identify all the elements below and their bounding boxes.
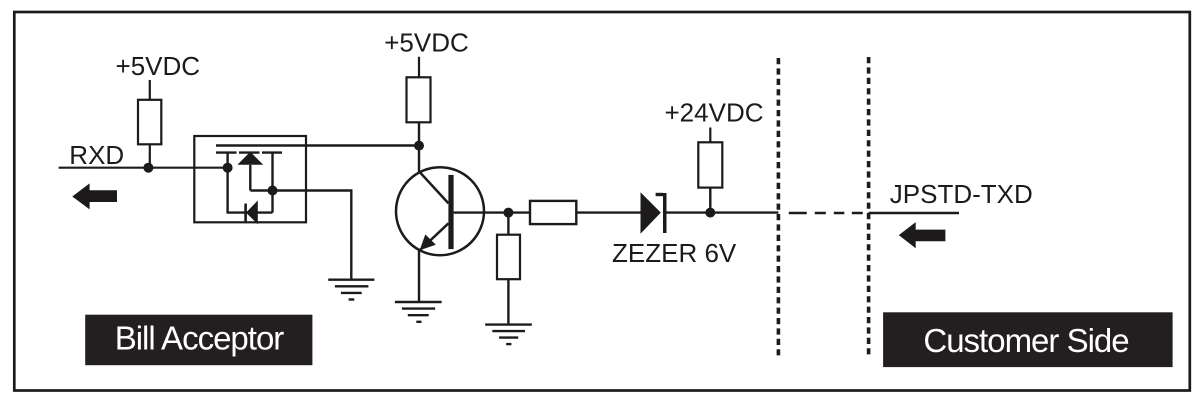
- wire U1 top rail to collector node: [216, 144, 419, 146]
- wire to R3: [507, 213, 509, 235]
- wire base line: [454, 211, 530, 213]
- arrow JPSTD-TXD direction: [899, 222, 946, 248]
- svg-text:ZEZER 6V: ZEZER 6V: [612, 238, 737, 268]
- svg-text:RXD: RXD: [69, 140, 124, 170]
- svg-text:+5VDC: +5VDC: [116, 51, 201, 81]
- svg-text:Customer Side: Customer Side: [923, 322, 1128, 359]
- svg-text:+24VDC: +24VDC: [665, 98, 764, 128]
- wire dashed interconnect: [789, 212, 868, 214]
- diode D1 up arrow: [237, 152, 263, 165]
- svg-text:+5VDC: +5VDC: [384, 27, 469, 57]
- ground G1: [395, 302, 442, 322]
- wire R3 to ground: [507, 279, 509, 324]
- wire JPSTD-TXD: [869, 212, 959, 215]
- transistor Q1 circle: [396, 167, 484, 255]
- resistor R3: [497, 235, 520, 280]
- transistor Q1 collector diagonal: [419, 171, 449, 203]
- transistor Q1 emitter arrowhead: [420, 234, 436, 250]
- resistor R1: [138, 100, 161, 145]
- svg-text:Bill Acceptor: Bill Acceptor: [115, 319, 285, 356]
- wire D1 elbow: [250, 189, 272, 191]
- zener D3 triangle: [641, 192, 661, 234]
- resistor R4: [530, 201, 576, 224]
- wire U1 to ground: [273, 191, 352, 280]
- wire U1 dashed rail: [216, 151, 282, 153]
- resistor R5: [698, 142, 722, 187]
- ground G2: [485, 325, 532, 345]
- node U1 output: [268, 186, 278, 196]
- wire +5VDC left stem: [149, 80, 151, 100]
- resistor R2: [407, 77, 431, 122]
- zener D3 cathode bar: [663, 193, 667, 233]
- wire zener to boundary: [667, 211, 779, 213]
- wire R2 to collector: [418, 122, 420, 172]
- node RXD into U1: [223, 163, 233, 173]
- boundary dashed line 1: [777, 58, 781, 359]
- transistor Q1 emitter diagonal: [419, 223, 449, 251]
- node +24V junction: [705, 208, 715, 218]
- zener D3 cathode hook: [656, 193, 663, 196]
- wire U1 left vertical: [226, 153, 228, 213]
- boundary dashed line 2: [867, 57, 871, 358]
- wire +24VDC stem: [709, 128, 711, 143]
- diode D2 cathode bar: [244, 204, 247, 223]
- wire U1 bottom: [227, 211, 273, 213]
- wire emitter to ground: [418, 250, 420, 302]
- wire D1 anode vertical: [249, 165, 251, 191]
- wire R4 to zener: [576, 211, 641, 213]
- node junction R1/RXD: [143, 163, 153, 173]
- wire +5VDC center stem: [418, 57, 420, 78]
- wire RXD line: [59, 167, 228, 169]
- wire R5 to line: [709, 188, 711, 213]
- node collector junction: [414, 141, 424, 151]
- wire U1 right vertical: [271, 153, 273, 213]
- arrow RXD direction: [72, 183, 117, 209]
- optocoupler U1 box: [194, 136, 306, 222]
- Bill Acceptor label box: [85, 315, 312, 366]
- node base junction: [503, 208, 513, 218]
- ground G3: [328, 280, 374, 300]
- transistor Q1 base bar: [448, 175, 453, 249]
- diode D2 left arrow: [246, 201, 258, 225]
- svg-text:JPSTD-TXD: JPSTD-TXD: [890, 179, 1033, 209]
- wire R1 to RXD line: [149, 144, 151, 167]
- Customer Side label box: [883, 312, 1173, 367]
